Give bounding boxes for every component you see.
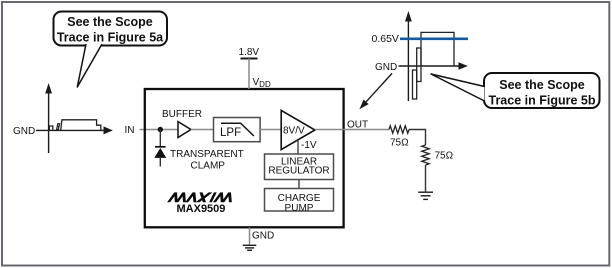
filter block LPF bbox=[214, 118, 261, 142]
svg-text:1.8V: 1.8V bbox=[239, 47, 260, 58]
block: charge pump bbox=[265, 189, 334, 212]
svg-text:See the Scope: See the Scope bbox=[67, 15, 152, 29]
ground symbol (load) bbox=[418, 192, 433, 199]
resistor R1 75 ohm series bbox=[389, 126, 409, 133]
svg-text:TRANSPARENT: TRANSPARENT bbox=[170, 149, 244, 160]
svg-text:8V/V: 8V/V bbox=[283, 126, 305, 137]
input scope sketch vertical axis bbox=[48, 91, 50, 153]
svg-text:75Ω: 75Ω bbox=[390, 138, 409, 149]
svg-text:GND: GND bbox=[375, 62, 397, 73]
wire: GND pin stub bbox=[249, 227, 251, 245]
svg-text:See the Scope: See the Scope bbox=[499, 78, 584, 92]
svg-text:GND: GND bbox=[252, 231, 274, 242]
0.65V blue reference line bbox=[400, 37, 468, 40]
svg-text:Trace in Figure 5a: Trace in Figure 5a bbox=[57, 31, 164, 45]
svg-text:PUMP: PUMP bbox=[285, 203, 314, 214]
output waveform trace (active video) bbox=[421, 32, 454, 66]
callout bubble: See the Scope Trace in Figure 5a bbox=[54, 12, 168, 46]
svg-text:MAX9509: MAX9509 bbox=[177, 203, 226, 215]
svg-text:-1V: -1V bbox=[301, 140, 317, 151]
wire: VDD supply stub bbox=[248, 59, 250, 90]
svg-text:0.65V: 0.65V bbox=[372, 33, 399, 45]
resistor R2 75 ohm shunt bbox=[422, 145, 429, 165]
input scope sketch horizontal axis bbox=[36, 129, 105, 131]
ground symbol (IC GND pin) bbox=[243, 245, 256, 250]
svg-text:CLAMP: CLAMP bbox=[191, 161, 226, 172]
output waveform trace (sync pulse) bbox=[413, 70, 417, 99]
wire: buffer to LPF bbox=[191, 129, 214, 131]
svg-text:75Ω: 75Ω bbox=[435, 151, 454, 162]
callout bubble: See the Scope Trace in Figure 5b bbox=[484, 73, 600, 108]
block: linear regulator bbox=[265, 154, 334, 180]
wire: shunt resistor to ground bbox=[425, 165, 427, 192]
svg-text:GND: GND bbox=[13, 126, 35, 137]
wire: LPF to amplifier bbox=[260, 129, 281, 131]
wire: OUT to series resistor bbox=[344, 129, 389, 131]
svg-text:REGULATOR: REGULATOR bbox=[268, 166, 329, 177]
svg-text:CHARGE: CHARGE bbox=[278, 193, 321, 204]
IC U1 MAX9509 outline bbox=[145, 89, 344, 227]
diode D1 transparent clamp bbox=[159, 130, 161, 147]
wire: linear regulator to charge pump bbox=[298, 180, 300, 189]
input video waveform trace (color burst) bbox=[57, 124, 60, 130]
svg-text:LPF: LPF bbox=[220, 127, 241, 139]
input video waveform trace (sync pulse) bbox=[49, 126, 52, 130]
output scope sketch vertical axis bbox=[407, 20, 409, 101]
arrow from output waveform to OUT pin bbox=[366, 73, 392, 101]
op-amp U2 8V/V output amplifier bbox=[281, 110, 315, 149]
wire: amplifier output to OUT pin bbox=[315, 129, 344, 131]
supply rail bar bbox=[241, 58, 258, 60]
wire: IN input stub bbox=[140, 129, 179, 131]
input video waveform trace (active video) bbox=[61, 120, 101, 131]
op-amp buffer A1 bbox=[178, 122, 191, 138]
svg-text:IN: IN bbox=[125, 125, 135, 136]
output waveform trace (color burst) bbox=[417, 48, 421, 82]
svg-text:BUFFER: BUFFER bbox=[162, 109, 202, 120]
LPF response curve icon bbox=[221, 123, 254, 136]
wire: series resistor to shunt node bbox=[409, 130, 426, 146]
output scope sketch horizontal axis bbox=[399, 65, 460, 67]
node A input junction dot bbox=[158, 127, 163, 132]
svg-text:Trace in Figure 5b: Trace in Figure 5b bbox=[489, 94, 596, 108]
wire: amplifier negative rail to linear regulator bbox=[297, 140, 299, 154]
